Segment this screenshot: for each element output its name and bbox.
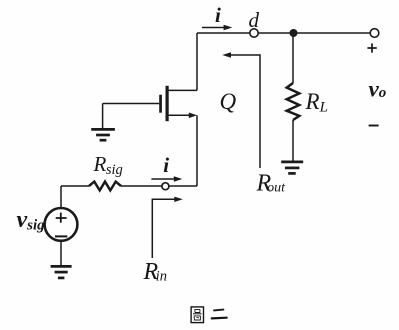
wire drain horizontal (168, 89, 197, 91)
node d (250, 29, 258, 37)
wire top rail left segment (197, 32, 250, 34)
wire drain vertical (196, 33, 198, 90)
transistor Q channel bar (166, 86, 169, 121)
wire gate ground drop (102, 104, 104, 129)
resistor R_sig (89, 182, 121, 191)
current arrow i (source) (151, 176, 182, 181)
resistor R_L (287, 83, 300, 120)
svg-text:Q: Q (220, 89, 237, 114)
svg-text:i: i (215, 3, 221, 27)
wire input rail left (61, 185, 89, 187)
voltage source v_sig (45, 208, 78, 241)
svg-text:vo: vo (369, 77, 387, 102)
svg-text:Rin: Rin (143, 259, 167, 285)
wire RL to ground (292, 120, 294, 161)
svg-text:vsig: vsig (17, 207, 46, 234)
node (input) (162, 183, 169, 190)
svg-text:Rsig: Rsig (93, 152, 123, 178)
wire junction to RL (292, 35, 294, 83)
output terminal circle (370, 29, 379, 38)
ground (R_L) (281, 162, 303, 174)
wire vsig bottom (60, 241, 62, 265)
junction dot (290, 29, 298, 37)
wire source vertical (196, 115, 198, 186)
ground (v_sig) (51, 266, 72, 278)
svg-text:i: i (163, 153, 169, 177)
impedance arrow R_out (222, 52, 260, 168)
label + (output) (367, 43, 376, 52)
wire input rail right (169, 185, 197, 187)
transistor Q source line with arrow (169, 113, 197, 119)
wire input rail middle (121, 185, 162, 187)
label - (output) (369, 125, 379, 127)
svg-text:Rout: Rout (256, 171, 287, 197)
transistor Q gate bar (159, 95, 162, 113)
caption figure character two (212, 310, 227, 319)
wire vsig top (60, 186, 62, 208)
ground (gate) (91, 129, 115, 140)
wire gate horizontal (103, 103, 160, 105)
caption figure character tu (191, 307, 203, 323)
current arrow i (drain) (202, 25, 232, 31)
svg-text:d: d (249, 8, 260, 32)
impedance arrow R_in (152, 197, 183, 258)
wire top rail right segment (258, 32, 370, 34)
svg-text:RL: RL (305, 89, 328, 116)
